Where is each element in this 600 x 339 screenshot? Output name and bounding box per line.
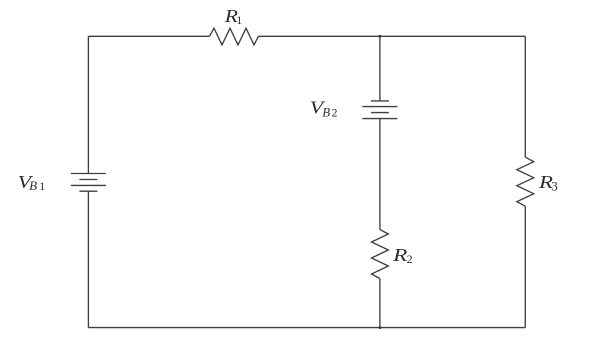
battery VB1 plate long bottom xyxy=(71,184,106,186)
wire: top rail right of R1 xyxy=(259,35,526,37)
svg-text:R: R xyxy=(392,245,407,265)
wire: right branch upper (top rail to R3) xyxy=(524,36,526,157)
wire: top rail left of R1 xyxy=(88,35,209,37)
node: bottom junction of middle branch xyxy=(378,326,381,329)
svg-text:1: 1 xyxy=(39,179,45,193)
resistor R2 xyxy=(372,230,389,279)
battery VB2 plate short top xyxy=(371,100,389,102)
wire: middle branch upper (top rail to VB2) xyxy=(379,36,381,101)
battery VB2 plate short lower xyxy=(371,112,389,114)
svg-text:B: B xyxy=(29,178,37,193)
wire: left branch lower (VB1 to bottom rail) xyxy=(87,191,89,327)
node: top junction of middle branch xyxy=(378,35,381,38)
svg-text:B: B xyxy=(322,105,330,120)
label R2 xyxy=(392,245,413,266)
wire: middle branch lower (R2 to bottom rail) xyxy=(379,279,381,328)
resistor R1 xyxy=(210,28,259,45)
battery VB2 plate long upper xyxy=(362,106,397,108)
svg-text:2: 2 xyxy=(332,106,338,120)
battery VB2 plate long bottom xyxy=(362,118,397,120)
label VB2 xyxy=(310,97,338,119)
svg-text:2: 2 xyxy=(407,252,413,266)
svg-text:3: 3 xyxy=(551,179,558,194)
svg-text:1: 1 xyxy=(236,13,242,27)
wire: bottom rail xyxy=(88,327,525,329)
wire: left branch upper (top rail to VB1) xyxy=(87,36,89,173)
label VB1 xyxy=(18,172,45,193)
wire: right branch lower (R3 to bottom rail) xyxy=(524,206,526,327)
battery VB1 plate short lower xyxy=(79,190,97,192)
label R1 xyxy=(224,6,243,27)
battery VB1 plate long top xyxy=(71,173,106,175)
wire: middle branch between VB2 and R2 xyxy=(379,119,381,230)
resistor R3 xyxy=(517,157,534,206)
label R3 xyxy=(538,172,558,194)
battery VB1 plate short upper xyxy=(79,179,97,181)
